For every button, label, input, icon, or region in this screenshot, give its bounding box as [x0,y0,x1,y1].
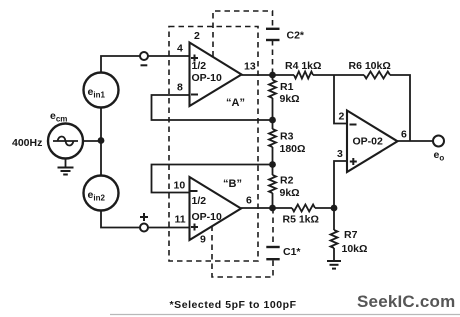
source e_cm 400Hz [48,124,83,159]
wire R6 to output node [390,75,410,141]
capacitor C2 [266,28,280,30]
svg-text:10: 10 [174,180,186,192]
wire pin 3 of OP-02 [334,161,347,208]
wire R4 to R6 [313,74,364,76]
wire C2 to node dashed [272,40,274,75]
svg-text:OP-10: OP-10 [192,211,223,223]
svg-text:SeekIC.com: SeekIC.com [357,292,455,311]
svg-text:10kΩ: 10kΩ [342,243,368,255]
svg-text:ein2: ein2 [88,189,106,203]
node B output [269,205,276,212]
op-amp U2 OP-02 [347,111,398,173]
svg-text:R7: R7 [344,229,358,241]
op-amp U1A OP-10 [190,43,242,107]
resistor R7 10k [333,208,335,230]
terminal minus input [140,52,148,60]
svg-text:ecm: ecm [50,110,67,124]
wire pin 10 feedback [152,165,273,193]
node e_cm junction [98,137,105,144]
wire e_in1 to minus terminal [101,56,140,73]
svg-text:R3: R3 [280,131,294,143]
OP-10 package dashed box [169,27,258,262]
wire terminal to pin 11 [148,227,190,229]
wire R5 to node [315,207,334,209]
svg-text:C1*: C1* [283,246,301,258]
bottom border line [110,314,460,316]
svg-text:3: 3 [337,148,343,160]
resistor R2 9k [272,165,274,176]
svg-text:eo: eo [434,149,445,163]
svg-text:OP-10: OP-10 [192,72,223,84]
svg-text:“B”: “B” [223,178,242,190]
node R3/R2 [269,161,276,168]
op-amp U1B OP-10 [190,177,242,240]
wire e_cm to node [83,140,101,142]
svg-text:13: 13 [244,61,256,73]
resistor R4 1k [294,72,313,79]
wire e_in2 to plus terminal [101,211,140,228]
wire A output row [242,74,295,76]
svg-text:11: 11 [175,214,186,226]
resistor R6 10k [364,72,390,79]
svg-text:180Ω: 180Ω [280,143,306,155]
svg-text:R6 10kΩ: R6 10kΩ [349,60,391,72]
ground under R7 [327,260,341,262]
resistor R5 1k [292,205,315,212]
svg-text:6: 6 [401,129,407,141]
svg-text:9: 9 [200,234,206,246]
wire terminal to pin 4 [148,55,190,57]
svg-text:*Selected 5pF to 100pF: *Selected 5pF to 100pF [170,299,297,311]
source e_in2 [84,176,119,211]
svg-text:1/2: 1/2 [192,60,207,72]
resistor R3 180 [272,120,274,129]
svg-text:R1: R1 [280,81,294,93]
terminal plus input [140,224,148,232]
wire pin 8 feedback [152,95,273,120]
wire e_in1 to e_in2 [100,108,102,176]
svg-text:C2*: C2* [287,30,305,42]
svg-text:1/2: 1/2 [192,195,207,207]
wire B output row [241,207,292,209]
svg-text:4: 4 [177,43,183,55]
wire pin 2 of OP-02 [334,75,347,124]
svg-text:OP-02: OP-02 [353,136,384,148]
svg-text:2: 2 [339,111,345,123]
source e_in1 [84,73,119,108]
capacitor C1 [266,258,279,260]
capacitor C2 dashed path [213,11,273,57]
node R1/R3 [269,117,276,124]
svg-text:400Hz: 400Hz [12,137,42,149]
node A output [269,72,276,79]
svg-text:R4 1kΩ: R4 1kΩ [285,60,321,72]
svg-text:R2: R2 [280,175,294,187]
resistor R1 9k [272,75,274,80]
svg-text:8: 8 [177,82,183,94]
terminal e_o output [433,136,444,147]
wire C1 to node dashed [272,208,274,247]
svg-text:R5 1kΩ: R5 1kΩ [283,214,319,226]
svg-text:9kΩ: 9kΩ [280,93,300,105]
svg-text:“A”: “A” [226,97,245,109]
svg-text:9kΩ: 9kΩ [280,187,300,199]
svg-text:6: 6 [246,195,252,207]
capacitor C1 dashed path [212,226,273,278]
svg-text:ein1: ein1 [88,86,106,100]
svg-text:2: 2 [194,30,200,42]
node R5/R7/pin3 [331,205,338,212]
ground under e_cm [65,159,67,168]
wire OP-02 output [398,140,434,142]
